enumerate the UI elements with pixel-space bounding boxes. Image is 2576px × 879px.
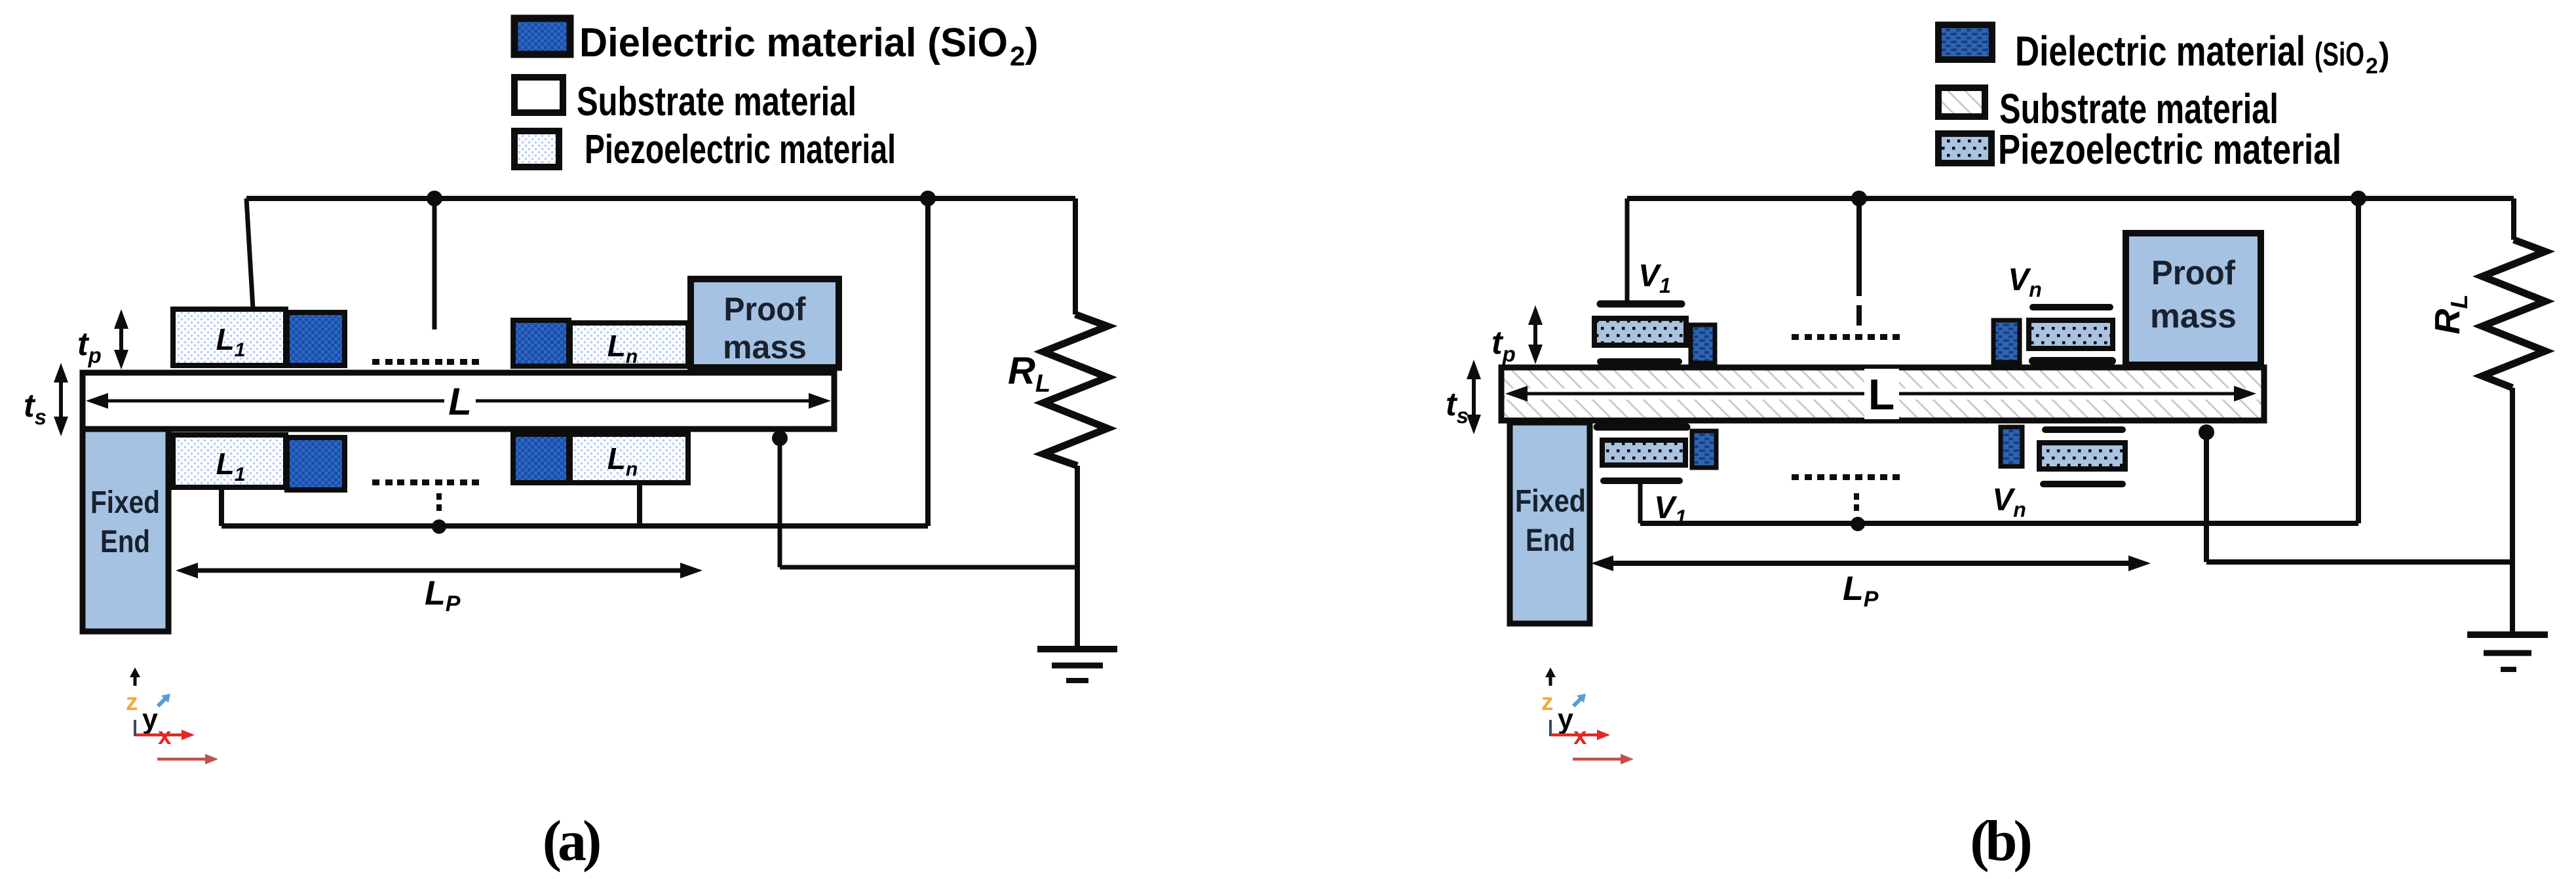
dielectric segment right of V1 top (b) — [1691, 325, 1715, 363]
piezoelectric segment Ln bottom (a) — [570, 434, 688, 483]
ground symbol (a) — [1037, 649, 1117, 681]
wire: riser joining bottom bus to top bus (b) — [2356, 198, 2361, 523]
electrode plate above Vn piezo (b) — [2033, 304, 2110, 310]
node: junction dot on bottom bus (b) — [1851, 517, 1865, 531]
dielectric segment left of Vn bottom (b) — [2001, 427, 2022, 466]
svg-text:Fixed: Fixed — [1515, 484, 1586, 519]
svg-text:L: L — [448, 381, 471, 423]
wire: dashed stub above bottom-bus junction (b) — [1854, 493, 1859, 511]
electrode plate below Vn piezo (b) — [2033, 357, 2112, 365]
dots: continuation row bottom (a) — [372, 479, 479, 485]
piezoelectric segment Vn bottom (b) — [2039, 443, 2125, 469]
dielectric segment left of Ln bottom (a) — [513, 434, 569, 483]
substrate beam (a) — [83, 373, 834, 429]
node: junction dot on beam lower edge (b) — [2199, 424, 2214, 440]
dimension arrow tp (a) — [114, 309, 128, 369]
node: junction dot on top bus (b) — [1851, 191, 1867, 206]
wire: beam (middle electrode) to resistor bottom (a) — [780, 438, 1077, 567]
dielectric segment right of V1 bottom (b) — [1692, 431, 1716, 468]
svg-text:Dielectric material (SiO: Dielectric material (SiO — [579, 20, 1008, 65]
node: junction dot on beam lower edge (a) — [772, 430, 788, 446]
piezoelectric segment Ln top (a) — [570, 323, 688, 366]
dielectric segment left of Vn top (b) — [1993, 320, 2020, 362]
legend swatch: piezoelectric material (a) — [514, 131, 559, 167]
substrate beam (b) — [1501, 367, 2264, 421]
legend swatch: substrate material (a) — [514, 77, 563, 113]
resistor RL zigzag (a) — [1043, 314, 1107, 466]
legend swatch: dielectric material (a) — [514, 18, 570, 54]
piezoelectric segment V1 bottom (b) — [1602, 440, 1685, 465]
wire: drop from bus to V1 top electrode (b) — [1625, 198, 1630, 301]
wire: beam (middle electrode) to resistor bottom (b) — [2206, 432, 2512, 562]
svg-text:mass: mass — [723, 329, 807, 365]
legend swatch: piezoelectric material (b) — [1938, 134, 1991, 163]
ground symbol (b) — [2467, 635, 2548, 669]
wire: top electrode bus (b) — [1627, 196, 2514, 201]
piezoelectric segment V1 top (b) — [1594, 318, 1686, 345]
label L on white box (b) — [1864, 369, 1899, 419]
wire: V1 bottom electrode to bus (b) — [1638, 484, 1643, 523]
svg-text:L: L — [1868, 370, 1894, 419]
svg-text:Fixed: Fixed — [90, 485, 160, 520]
dimension arrow LP (a) — [176, 563, 702, 578]
node: junction dot of riser on top bus (b) — [2351, 191, 2366, 206]
svg-text:): ) — [1025, 20, 1039, 65]
coordinate axes (b) — [1541, 667, 1634, 764]
dimension arrow LP (b) — [1591, 555, 2151, 571]
dots: continuation row bottom (b) — [1792, 474, 1900, 480]
piezoelectric segment L1 top (a) — [173, 309, 286, 365]
svg-text:2: 2 — [1010, 41, 1025, 71]
svg-text:(a): (a) — [543, 810, 600, 873]
svg-text:mass: mass — [2150, 297, 2237, 335]
dimension arrow ts (a) — [54, 363, 68, 436]
wire: drop from bus to L1 top electrode (a) — [246, 198, 253, 309]
fixed end block (a) — [83, 429, 168, 631]
dimension arrow tp (b) — [1528, 305, 1543, 364]
electrode plate below Vn bottom piezo (b) — [2043, 481, 2123, 487]
wire: bottom electrode bus (b) — [1640, 521, 2358, 526]
wire: stub from Ln bottom electrode to bus (a) — [637, 485, 642, 526]
dots: continuation row top (a) — [372, 359, 479, 365]
wire: top bus corner down to load resistor (a) — [1073, 198, 1078, 314]
wire: resistor bottom lead to ground (a) — [1075, 466, 1080, 649]
svg-text:x: x — [158, 722, 172, 749]
svg-text:): ) — [2379, 36, 2390, 73]
electrode plate below V1 bottom piezo (b) — [1604, 477, 1680, 484]
svg-text:(b): (b) — [1970, 810, 2030, 873]
legend swatch: dielectric material (b) — [1938, 25, 1992, 60]
wire: dangling stub from top bus (a) — [433, 198, 437, 329]
svg-text:Dielectric material: Dielectric material — [2015, 28, 2305, 75]
proof mass block (b) — [2126, 233, 2261, 365]
dielectric segment left of Ln top (a) — [513, 320, 569, 366]
dimension arrow L inside beam (b) — [1505, 388, 2259, 400]
dielectric segment right of L1 bottom (a) — [287, 438, 345, 490]
wire: dangling stub with dash from top bus (b) — [1856, 198, 1862, 326]
legend swatch: substrate material (b) — [1938, 88, 1985, 117]
electrode plate above V1 piezo (b) — [1600, 301, 1682, 308]
node: junction dot on bottom bus (a) — [432, 519, 446, 534]
electrode plate below V1 piezo (b) — [1600, 358, 1679, 365]
wire: stub from L1 bottom electrode to bus (a) — [219, 486, 224, 526]
wire: top electrode bus (a) — [246, 196, 1075, 201]
fixed end block (b) — [1510, 422, 1590, 624]
wire: riser joining bottom electrode bus to top bus (a) — [221, 198, 928, 526]
svg-text:End: End — [1526, 523, 1575, 558]
coordinate axes (a) — [126, 667, 218, 764]
wire: dashed stub above bottom-bus junction (a) — [436, 493, 442, 511]
svg-text:End: End — [100, 525, 150, 559]
piezoelectric segment Vn top (b) — [2029, 320, 2113, 348]
dimension arrow ts (b) — [1467, 360, 1481, 434]
proof mass block (a) — [691, 279, 839, 367]
node: junction dot of bottom-bus riser on top bus (a) — [920, 191, 936, 206]
svg-text:Piezoelectric material: Piezoelectric material — [585, 127, 896, 172]
wire: top bus corner down to load resistor (b) — [2511, 198, 2516, 240]
svg-text:2: 2 — [2366, 54, 2378, 79]
node: junction dot on top bus (a) — [427, 191, 442, 206]
electrode plate under beam right (b) — [2045, 426, 2123, 433]
dots: continuation row top (b) — [1792, 334, 1900, 340]
svg-text:Piezoelectric material: Piezoelectric material — [1998, 126, 2341, 173]
wire: resistor bottom lead to ground (b) — [2510, 388, 2515, 635]
svg-text:y: y — [1558, 703, 1573, 735]
svg-text:x: x — [1573, 722, 1587, 749]
svg-text:Proof: Proof — [724, 291, 806, 327]
svg-text:y: y — [142, 703, 158, 735]
svg-text:Substrate material: Substrate material — [577, 79, 856, 124]
svg-text:z: z — [1541, 688, 1554, 715]
svg-text:(SiO: (SiO — [2315, 36, 2364, 73]
piezoelectric segment L1 bottom (a) — [173, 435, 286, 487]
electrode plate under beam left (b) — [1597, 424, 1687, 431]
dielectric segment right of L1 top (a) — [287, 312, 345, 365]
svg-text:z: z — [126, 688, 138, 715]
resistor RL zigzag (b) — [2482, 240, 2545, 388]
svg-text:Proof: Proof — [2151, 254, 2236, 292]
dimension arrow L inside beam (a) — [86, 393, 831, 409]
